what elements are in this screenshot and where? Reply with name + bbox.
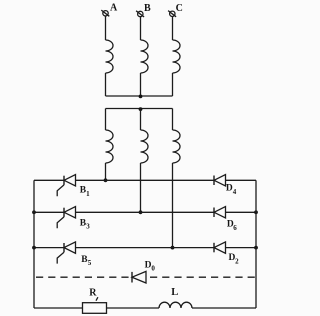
svg-text:5: 5	[88, 259, 92, 267]
node secondary star point	[139, 107, 143, 111]
wire row1 middle segment	[76, 179, 215, 181]
wire secondary bus to winding a	[105, 109, 107, 131]
label B3	[80, 219, 90, 231]
svg-text:6: 6	[233, 224, 237, 232]
wire secondary bus to winding b	[140, 109, 142, 131]
diode D4	[214, 175, 226, 186]
node secondary b on row2	[139, 210, 143, 214]
diode D0	[132, 271, 146, 283]
winding primary C	[173, 40, 181, 73]
wire secondary b to row2	[140, 163, 142, 212]
label D6	[227, 220, 237, 232]
wire primary B to star bus	[140, 73, 142, 96]
label D4	[226, 184, 237, 196]
winding secondary b	[141, 130, 149, 163]
node right bus row2	[254, 210, 258, 214]
terminal A	[101, 10, 109, 16]
wire right bus	[255, 180, 257, 308]
svg-text:R: R	[89, 287, 97, 298]
wire row1 right segment	[226, 179, 257, 181]
label R	[89, 287, 98, 300]
wire row2 middle segment	[76, 211, 215, 213]
wire bottom rail left segment	[34, 307, 83, 309]
node primary star point	[139, 95, 143, 99]
node left bus row2	[32, 210, 36, 214]
svg-text:L: L	[171, 287, 178, 298]
wire terminal A to winding	[105, 16, 107, 40]
terminal B	[136, 11, 144, 17]
terminal C	[168, 11, 176, 17]
node secondary c on row3	[171, 246, 175, 250]
thyristor B3	[57, 207, 75, 229]
node left bus row3	[32, 246, 36, 250]
wire primary A to star bus	[105, 73, 107, 96]
label D2	[229, 253, 240, 265]
inductor L	[159, 302, 192, 308]
svg-text:B: B	[144, 3, 151, 14]
svg-text:0: 0	[151, 264, 155, 272]
wire left bus	[33, 180, 35, 308]
node secondary a on row1	[104, 178, 108, 182]
wire secondary bus to winding c	[172, 109, 174, 131]
svg-text:3: 3	[86, 223, 90, 231]
wire bottom rail middle segment	[107, 307, 160, 309]
diode D6	[214, 207, 226, 218]
resistor R	[83, 303, 107, 314]
wire row3 middle segment	[76, 247, 215, 249]
svg-text:A: A	[110, 3, 118, 14]
wire freewheel branch left (dashed)	[36, 276, 130, 278]
wire secondary star bus	[106, 108, 173, 110]
wire secondary c to row3	[172, 163, 174, 248]
winding secondary c	[173, 130, 181, 163]
wire row2 left segment	[34, 211, 64, 213]
winding secondary a	[106, 130, 114, 163]
wire secondary a to row1	[105, 163, 107, 180]
wire row2 right segment	[226, 211, 257, 213]
wire freewheel branch right (dashed)	[150, 276, 256, 278]
winding primary B	[141, 40, 149, 73]
svg-text:2: 2	[235, 257, 239, 265]
label D0	[145, 260, 156, 272]
wire terminal B to winding	[140, 17, 142, 40]
wire primary C to star bus	[172, 73, 174, 96]
wire terminal C to winding	[172, 16, 174, 40]
svg-text:4: 4	[233, 188, 237, 196]
wire row1 left segment	[34, 179, 64, 181]
winding primary A	[106, 40, 114, 73]
label B5	[81, 255, 91, 267]
diode D2	[214, 242, 226, 253]
thyristor B5	[57, 242, 75, 264]
wire row3 right segment	[226, 247, 257, 249]
node right bus row3	[254, 246, 258, 250]
wire primary star bus	[106, 95, 173, 97]
wire row3 left segment	[34, 247, 64, 249]
thyristor B1	[57, 175, 75, 197]
svg-text:C: C	[176, 3, 183, 14]
wire bottom rail right segment	[192, 307, 256, 309]
label B1	[80, 186, 90, 198]
svg-text:1: 1	[86, 190, 90, 198]
